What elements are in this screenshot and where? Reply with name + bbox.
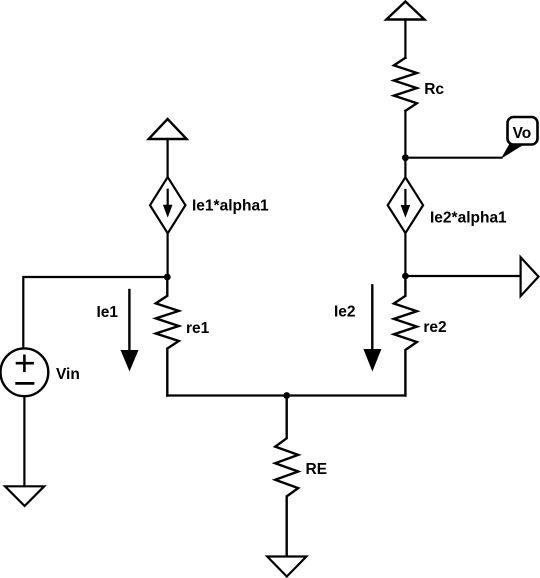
wire (23, 396, 25, 486)
wire (404, 111, 406, 158)
wire to Vo tap (405, 157, 501, 159)
node dot emitter2 (402, 273, 409, 280)
node dot (164, 274, 171, 281)
svg-text:re1: re1 (186, 320, 210, 337)
wire output stub (405, 275, 520, 277)
resistor re1 (156, 277, 179, 396)
svg-text:Vin: Vin (56, 366, 80, 383)
node dot collector (402, 154, 409, 161)
svg-text:RE: RE (306, 461, 328, 478)
resistor RE (275, 396, 298, 557)
current arrow Ie1 (121, 290, 139, 372)
wire (404, 158, 406, 178)
wire (167, 139, 169, 177)
net label box Vo (508, 117, 538, 145)
node dot bottom (283, 392, 290, 399)
power rail triangle right (386, 2, 424, 20)
power rail triangle left (149, 119, 187, 139)
current arrow Ie2 (363, 285, 381, 371)
svg-text:re2: re2 (423, 319, 446, 336)
wire (167, 233, 169, 277)
svg-text:Ie1*alpha1: Ie1*alpha1 (192, 198, 269, 215)
net flag tail (501, 144, 524, 159)
svg-text:Ie1: Ie1 (97, 304, 119, 321)
wire bottom rail (167, 394, 405, 396)
resistor re2 (394, 276, 417, 396)
svg-text:Rc: Rc (424, 81, 444, 98)
dependent current source Ie1*alpha1 (150, 177, 185, 233)
ground bottom (267, 557, 306, 577)
voltage source Vin (1, 348, 49, 396)
svg-text:Vo: Vo (513, 125, 532, 142)
ground left (5, 486, 44, 506)
wire (404, 233, 406, 276)
svg-text:Ie2*alpha1: Ie2*alpha1 (430, 209, 507, 226)
wire (404, 20, 406, 58)
wire node to Vin (23, 277, 167, 348)
resistor Rc (394, 58, 417, 111)
output port triangle (521, 257, 539, 296)
svg-text:Ie2: Ie2 (334, 304, 356, 321)
dependent current source Ie2*alpha1 (388, 177, 423, 233)
